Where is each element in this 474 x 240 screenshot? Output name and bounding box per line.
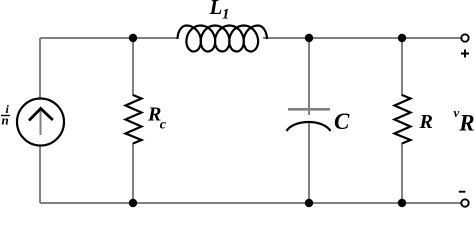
svg-text:R: R — [419, 111, 433, 133]
svg-text:L: L — [209, 0, 223, 19]
svg-text:C: C — [334, 109, 350, 134]
svg-text:c: c — [160, 118, 167, 133]
svg-text:1: 1 — [222, 7, 230, 23]
svg-text:R: R — [458, 111, 474, 136]
svg-text:n: n — [2, 113, 9, 128]
